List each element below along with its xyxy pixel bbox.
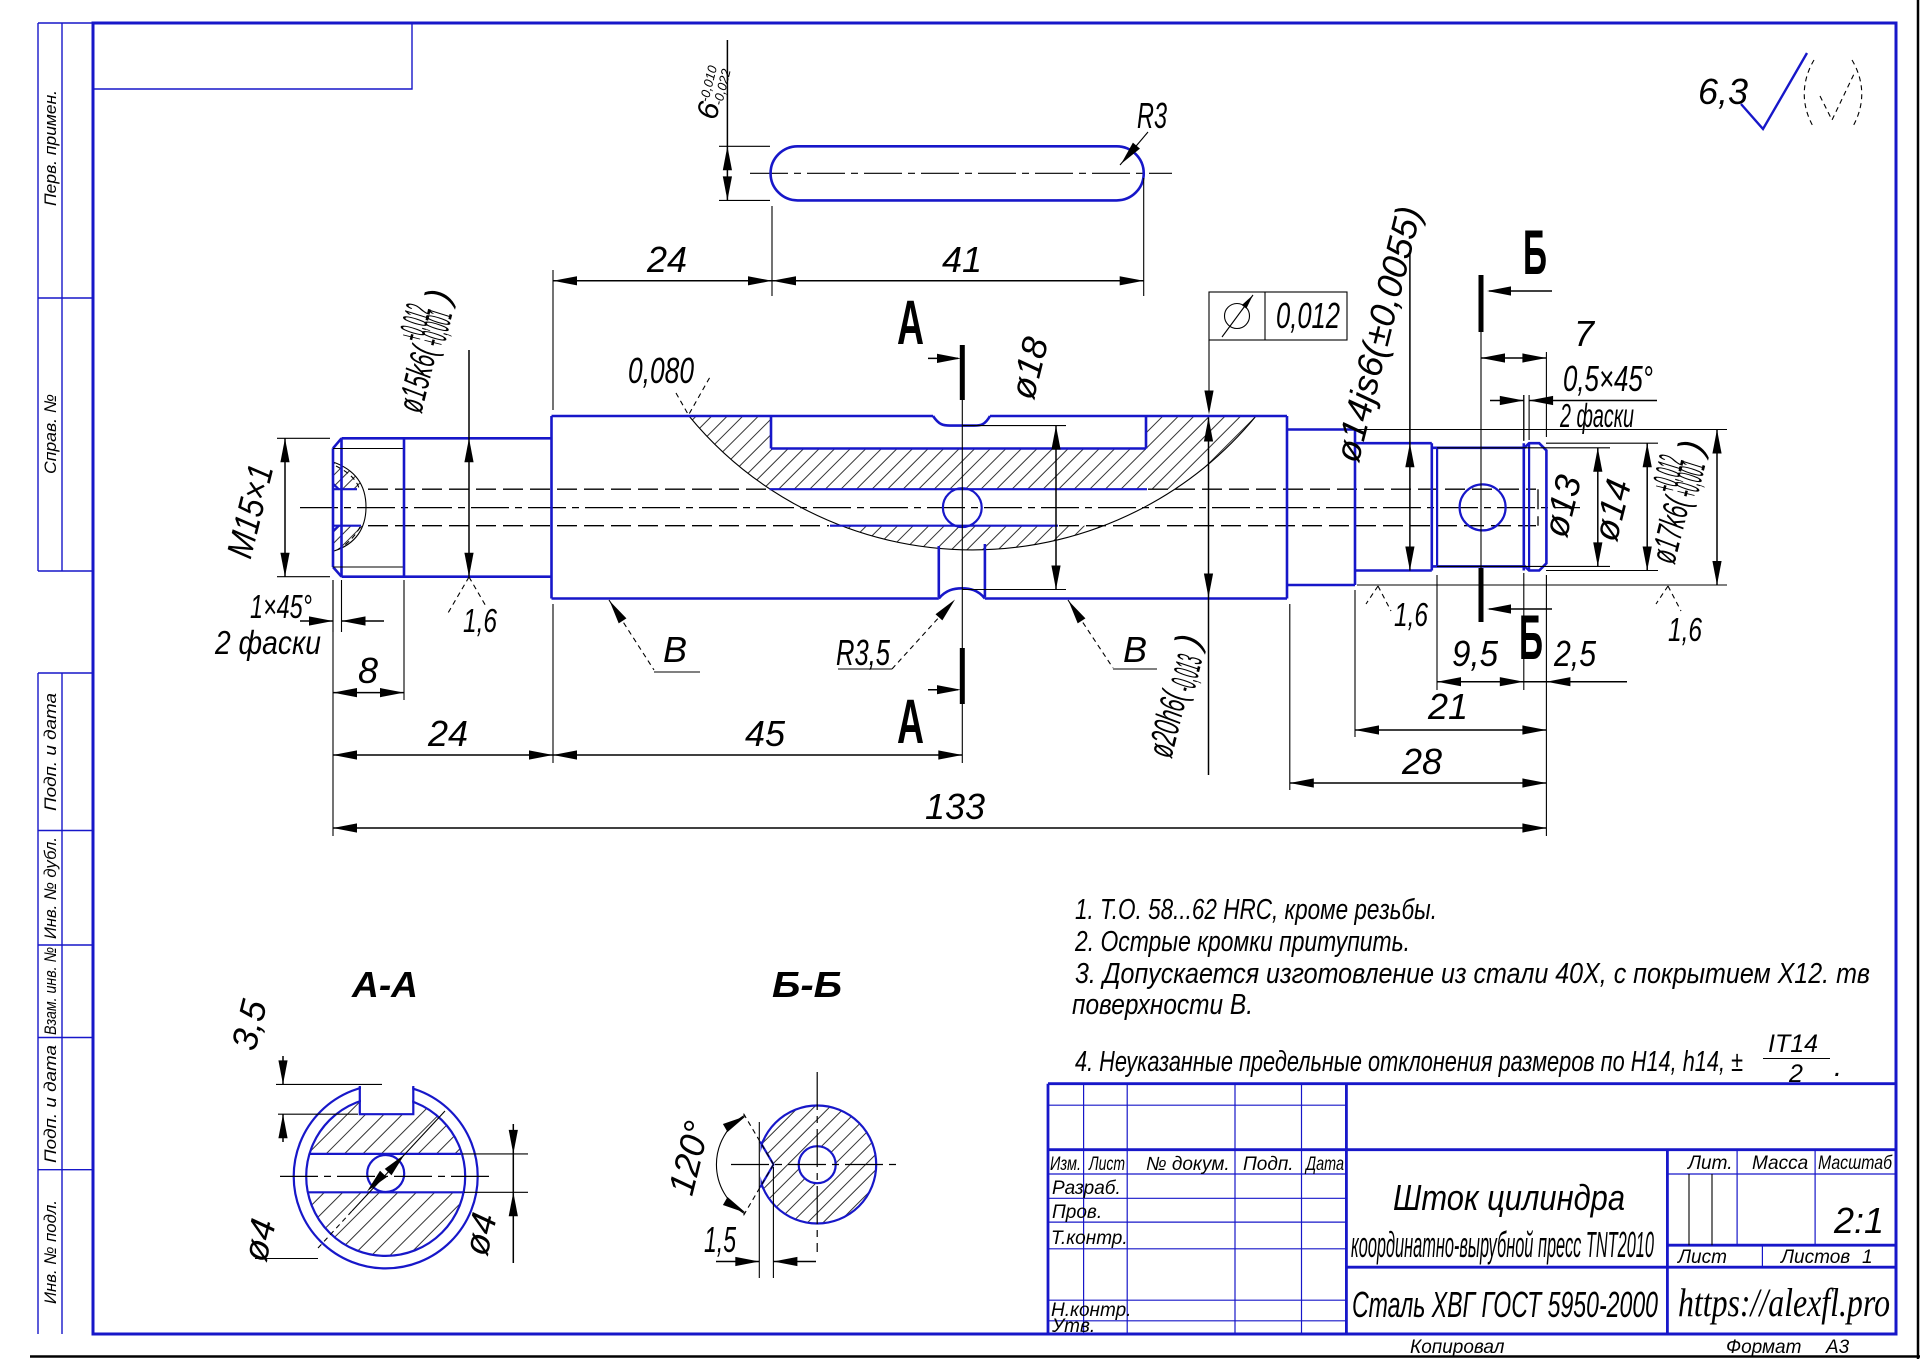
svg-text:Справ. №: Справ. №	[41, 394, 60, 474]
svg-text:-0,013: -0,013	[1162, 651, 1210, 696]
svg-text:А3: А3	[1825, 1337, 1850, 1358]
keyway slot floor (sectioned)	[771, 447, 1146, 450]
svg-text:Изм.: Изм.	[1050, 1154, 1081, 1175]
stamp label Подп. и дата	[41, 693, 60, 811]
svg-text:Б: Б	[1523, 218, 1547, 288]
dimension 6 (slot width) extension lines	[719, 146, 770, 200]
M15x1 label	[218, 460, 281, 562]
phi13 reference lines	[1437, 448, 1610, 567]
svg-text:1,5: 1,5	[704, 1219, 737, 1260]
svg-text:Формат: Формат	[1726, 1337, 1801, 1358]
parenthesised check	[1804, 60, 1814, 128]
dimension 24 top line	[553, 280, 772, 282]
phi17k6 reference lines	[1357, 430, 1727, 586]
A-A dimension 3,5	[276, 1084, 382, 1114]
svg-text:ø4: ø4	[455, 1209, 505, 1260]
svg-text:М15×1: М15×1	[218, 460, 281, 562]
svg-text:4. Неуказанные предельные о: 4. Неуказанные предельные отклонения раз…	[1075, 1046, 1743, 1078]
left stamp strip columns	[38, 23, 62, 1334]
stamp label Подп. и дата	[41, 1045, 60, 1163]
svg-text:Утв.: Утв.	[1051, 1316, 1095, 1337]
center hole edges at left face	[333, 489, 361, 526]
phi15k6 label	[374, 281, 465, 418]
svg-text:Инв. № подл.: Инв. № подл.	[41, 1200, 60, 1304]
B-B centerlines	[816, 1072, 818, 1252]
page right edge line	[1917, 0, 1920, 1359]
section B-B cut marks	[1480, 332, 1482, 568]
svg-text:2 фаски: 2 фаски	[1559, 397, 1634, 434]
title block thin columns left	[1084, 1084, 1302, 1334]
step face phi20/phi17	[1286, 416, 1289, 599]
svg-text:Листов: Листов	[1779, 1247, 1850, 1268]
phi14js6 dimension line	[1409, 250, 1411, 571]
svg-text:Перв. примен.: Перв. примен.	[41, 90, 60, 206]
dimension 6 label with tolerance	[691, 63, 736, 123]
svg-text:https://alexfl.pro: https://alexfl.pro	[1678, 1280, 1890, 1325]
svg-text:2:1: 2:1	[1833, 1200, 1884, 1241]
axial hole sectioned edge bottom	[830, 525, 1058, 527]
dimension 28 extension	[1289, 604, 1291, 790]
phi14 dimension line	[1646, 443, 1648, 570]
stamp label Инв. № подл.	[41, 1200, 60, 1304]
svg-text:6,3: 6,3	[1698, 71, 1748, 112]
svg-text:ø20h6(: ø20h6(	[1139, 685, 1195, 761]
svg-text:А: А	[897, 687, 924, 757]
dimension 21 extensions	[1355, 575, 1546, 836]
svg-text:0,012: 0,012	[1276, 295, 1340, 336]
collar outline with end chamfers	[1524, 443, 1547, 570]
collar left face	[1523, 443, 1526, 570]
A-A hatch	[290, 1080, 482, 1256]
M15x1 dimension line	[284, 438, 286, 576]
svg-text:41: 41	[942, 239, 982, 280]
technical notes	[1072, 894, 1870, 1088]
svg-text:0,5×45°: 0,5×45°	[1563, 358, 1653, 399]
runout leader arrow	[1208, 340, 1210, 412]
surface tolerance check mark	[676, 377, 710, 415]
cross hole phi4 (middle, sectioned)	[943, 488, 982, 527]
phi14 reference lines	[1546, 443, 1658, 570]
svg-text:Шток цилиндра: Шток цилиндра	[1393, 1177, 1625, 1218]
groove shoulder face	[1431, 443, 1434, 570]
svg-text:А: А	[897, 288, 924, 358]
title block thin rows left	[1048, 1105, 1346, 1321]
A-A axial hole circle	[367, 1155, 404, 1192]
center hole entry chamfer	[333, 484, 339, 532]
svg-text:ø18: ø18	[1001, 333, 1056, 403]
phi20h6 label	[1139, 630, 1215, 763]
svg-text:2,5: 2,5	[1553, 633, 1597, 674]
break-out boundary arc (middle)	[689, 416, 1256, 550]
svg-text:1,6: 1,6	[463, 602, 497, 639]
B-B hatch	[758, 1106, 876, 1224]
svg-text:IT14: IT14	[1768, 1030, 1818, 1058]
axial hole hidden line top	[368, 488, 768, 490]
phi17k6 outline	[1287, 430, 1355, 586]
svg-text:R3: R3	[1137, 95, 1167, 136]
thread minor diameter thin lines	[333, 448, 404, 450]
svg-text:Сталь ХВГ ГОСТ 5950-2000: Сталь ХВГ ГОСТ 5950-2000	[1352, 1284, 1658, 1325]
dimension 7	[1545, 352, 1547, 437]
svg-text:7: 7	[1574, 313, 1596, 354]
dimension 8	[333, 692, 404, 694]
svg-text:120°: 120°	[660, 1117, 718, 1199]
dimension 1x45 line/arrows	[300, 620, 333, 622]
svg-text:Т.контр.: Т.контр.	[1051, 1228, 1128, 1249]
phi15k6 section outline	[404, 438, 552, 576]
svg-text:Подп.: Подп.	[1243, 1154, 1294, 1175]
step face phi17/phi14	[1354, 430, 1357, 586]
phi17k6 dimension line	[1716, 430, 1718, 586]
B-B circle phi13	[758, 1106, 876, 1224]
svg-text:ø14: ø14	[1584, 475, 1639, 545]
svg-text:1: 1	[1862, 1247, 1873, 1268]
svg-text:Подп. и дата: Подп. и дата	[41, 1045, 60, 1163]
svg-text:R3,5: R3,5	[836, 632, 891, 673]
svg-text:24: 24	[646, 239, 687, 280]
svg-text:координатно-вырубной пресс TNT: координатно-вырубной пресс TNT2010	[1351, 1224, 1654, 1265]
svg-text:1,6: 1,6	[1394, 596, 1428, 633]
dimension 6 line and arrows	[726, 40, 728, 200]
left stamp strip top border	[38, 22, 93, 24]
svg-text:Лист: Лист	[1088, 1154, 1125, 1175]
R3,5 leader	[838, 668, 892, 670]
phi20h6 top edge	[552, 415, 1288, 418]
B-B dimension 1,5	[716, 1261, 759, 1263]
svg-text:А-А: А-А	[351, 964, 418, 1005]
svg-text:24: 24	[427, 713, 468, 754]
B-B 1,5 extensions	[759, 1122, 773, 1278]
svg-text:ø17k6(: ø17k6(	[1642, 491, 1698, 567]
svg-text:1,6: 1,6	[1668, 611, 1702, 648]
axial hole hidden line bottom	[368, 525, 829, 527]
svg-text:Масштаб: Масштаб	[1818, 1153, 1893, 1174]
shaft step at end of thread	[403, 438, 406, 576]
svg-text:Лит.: Лит.	[1686, 1153, 1733, 1174]
left stamp strip dividers	[38, 298, 93, 1170]
dimension 2,5	[1524, 681, 1627, 683]
svg-text:1. Т.О. 58...62 HRC, кроме ре: 1. Т.О. 58...62 HRC, кроме резьбы.	[1075, 894, 1437, 926]
svg-text:поверхности В.: поверхности В.	[1072, 989, 1253, 1021]
svg-text:3,5: 3,5	[223, 995, 275, 1054]
step face phi15/phi20	[550, 416, 553, 599]
svg-text:Масса: Масса	[1752, 1153, 1808, 1174]
stamp label Перв. примен.	[41, 90, 60, 206]
svg-text:ø4: ø4	[234, 1215, 284, 1266]
A-A phi4 diagonal leader	[352, 1111, 445, 1211]
main axis centerline	[300, 507, 1580, 509]
break-out boundary arc (left end)	[333, 462, 366, 551]
shaft thread section outline	[333, 438, 404, 576]
dimension 28	[1290, 782, 1547, 784]
page bottom edge line	[30, 1355, 1920, 1358]
svg-text:Пров.: Пров.	[1052, 1202, 1102, 1223]
svg-text:Копировал: Копировал	[1410, 1337, 1505, 1358]
svg-text:+0,001: +0,001	[412, 306, 460, 351]
svg-text:2 фаски: 2 фаски	[214, 624, 321, 661]
left end center-hole breakout hatch	[325, 462, 372, 551]
runout tolerance frame	[1209, 292, 1347, 340]
svg-text:21: 21	[1427, 686, 1468, 727]
A-A centerline	[280, 1175, 492, 1177]
phi13 dimension line	[1597, 448, 1599, 567]
R3 leader	[1120, 132, 1148, 165]
bottom circumferential groove walls	[939, 544, 985, 597]
svg-text:133: 133	[925, 786, 985, 827]
A-A keyway notch	[360, 1086, 414, 1114]
svg-text:+0,001: +0,001	[1665, 457, 1713, 502]
phi18 dimension line	[1055, 426, 1057, 590]
dimension 24 (top) extension lines	[553, 178, 1144, 410]
svg-text:45: 45	[745, 713, 786, 754]
svg-text:0,080: 0,080	[628, 350, 694, 391]
thread chamfer edges	[333, 438, 342, 576]
cross hole phi4 (at groove, sectioned)	[1460, 484, 1506, 530]
dimension 8 extension	[403, 580, 405, 700]
dimension 21	[1355, 729, 1546, 731]
stamp label Взам. инв. №	[41, 947, 60, 1035]
A-A keyway notch erase	[361, 1076, 412, 1113]
dimension 45	[553, 754, 962, 756]
stamp label Справ. №	[41, 394, 60, 474]
dimension 133	[333, 827, 1546, 829]
phi13 neck outline	[1433, 448, 1524, 567]
datum B right: leader	[1068, 600, 1113, 668]
phi13 neck left edge	[1436, 448, 1438, 567]
title block outline	[1048, 1084, 1896, 1334]
svg-text:В: В	[663, 629, 687, 670]
dimension 24 bottom	[333, 754, 553, 756]
dimension 9,5	[1437, 681, 1524, 683]
top-left reference box	[93, 23, 412, 89]
A-A phi4 label left	[255, 1258, 318, 1260]
svg-text:3. Допускается изготовление: 3. Допускается изготовление из стали 40Х…	[1075, 958, 1870, 990]
title block right zone lines	[1667, 1150, 1896, 1268]
datum B left: leader	[609, 600, 654, 670]
svg-text:Подп. и дата: Подп. и дата	[41, 693, 60, 811]
dimension 9,5 extensions	[1436, 575, 1438, 690]
svg-text:Дата: Дата	[1304, 1154, 1344, 1175]
roughness 1,6 right end	[1656, 586, 1681, 611]
svg-text:Разраб.: Разраб.	[1052, 1178, 1121, 1199]
B-B drill cone	[760, 1142, 774, 1188]
roughness 1,6 under phi15	[448, 577, 487, 613]
svg-text:ø15k6(: ø15k6(	[389, 340, 445, 416]
phi14js6 outline	[1355, 443, 1432, 570]
keyway slot end walls	[771, 416, 1146, 449]
collar chamfer edge left	[1528, 443, 1530, 570]
slot top view centerline	[750, 172, 1172, 174]
A-A inner circle phi18	[306, 1097, 465, 1256]
M15x1 extension lines	[277, 438, 330, 576]
svg-text:9,5: 9,5	[1452, 633, 1499, 674]
A-A outer circle phi20	[294, 1084, 478, 1268]
B-B 120deg rays	[742, 1111, 774, 1218]
svg-text:8: 8	[358, 650, 378, 691]
lit cell inner columns	[1689, 1174, 1712, 1245]
B-B flat erase	[753, 1142, 761, 1187]
B-B 120deg arc	[716, 1115, 745, 1214]
dimension 24 bottom extensions	[333, 580, 962, 836]
roughness 1,6 under phi17 step	[1366, 586, 1391, 611]
svg-text:Б-Б: Б-Б	[772, 964, 842, 1005]
svg-text:6-0,010-0,022: 6-0,010-0,022	[691, 63, 736, 123]
svg-text:Инв. № дубл.: Инв. № дубл.	[41, 837, 60, 939]
svg-text:ø13: ø13	[1534, 471, 1589, 541]
dimension 41 line	[772, 280, 1144, 282]
svg-text:2. Острые кромки притупить.: 2. Острые кромки притупить.	[1074, 926, 1410, 958]
phi15k6 dimension line	[468, 350, 470, 577]
svg-text:ø14js6(±0,0055): ø14js6(±0,0055)	[1326, 202, 1429, 466]
bottom groove floor R3.5	[939, 588, 985, 598]
phi18 reference lines	[962, 426, 1066, 590]
svg-text:1×45°: 1×45°	[250, 588, 312, 625]
title block texts	[1050, 1153, 1893, 1337]
axial hole hidden end	[1537, 489, 1539, 526]
phi20h6 dimension line	[1208, 418, 1210, 776]
groove notch in top edge (section through groove)	[933, 416, 990, 426]
keyway slot top view (stadium)	[771, 146, 1144, 200]
B-B axial hole circle	[799, 1146, 836, 1183]
svg-text:№ докум.: № докум.	[1146, 1154, 1230, 1175]
svg-text:.: .	[1834, 1051, 1842, 1083]
svg-text:28: 28	[1401, 741, 1442, 782]
chamfer extension line	[341, 580, 343, 632]
stamp label Инв. № дубл.	[41, 837, 60, 939]
svg-text:В: В	[1123, 629, 1147, 670]
svg-text:Лист: Лист	[1676, 1247, 1727, 1268]
section A-A cut marks	[961, 400, 963, 648]
A-A phi4 dimension right	[462, 1154, 528, 1192]
svg-text:Взам. инв. №: Взам. инв. №	[41, 947, 60, 1035]
broken-out section hatch (middle)	[660, 410, 1280, 550]
phi20h6 bottom edge	[552, 597, 1288, 600]
axial hole sectioned edge top	[770, 488, 1148, 490]
A-A cross hole chords	[308, 1154, 464, 1192]
dash-dot arcs in left breakout	[336, 466, 359, 488]
svg-text:Б: Б	[1519, 603, 1543, 673]
